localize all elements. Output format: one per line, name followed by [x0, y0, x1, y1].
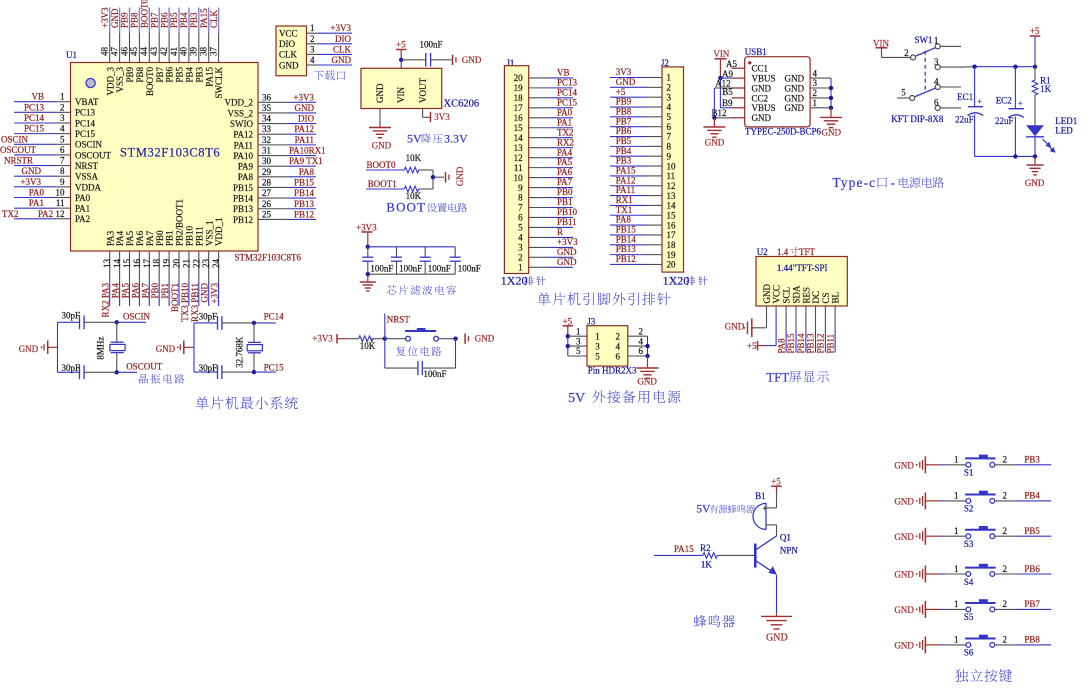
svg-text:PB1: PB1	[160, 283, 170, 299]
ground (cap)	[452, 55, 454, 65]
U1 pin 8 VSSA	[14, 166, 99, 181]
power VIN (usb)	[713, 49, 729, 78]
J1 pin 4 net R	[518, 227, 573, 243]
J2 pin 6 net PB7	[610, 116, 672, 132]
U1 pin 5 OSCIN	[1, 134, 103, 149]
power +3V3 (reset)	[312, 334, 347, 344]
svg-text:GND: GND	[372, 140, 392, 150]
svg-text:10: 10	[56, 188, 66, 198]
U1 pin 33 PA12	[233, 124, 316, 139]
svg-text:6: 6	[518, 213, 523, 223]
svg-text:1K: 1K	[701, 560, 713, 570]
U1 pin 47 VSS_3	[109, 8, 125, 93]
svg-text:VBUS: VBUS	[752, 74, 776, 84]
label 1X20 paizhen (J1)	[501, 274, 546, 288]
svg-text:39: 39	[189, 47, 199, 57]
J3 left pin 1	[568, 326, 587, 336]
svg-text:PC15: PC15	[557, 97, 578, 107]
svg-text:STM32F103C8T6: STM32F103C8T6	[120, 146, 220, 160]
U1 pin 12 PA2	[2, 209, 90, 224]
svg-text:33: 33	[262, 124, 272, 134]
svg-text:CLK: CLK	[333, 44, 352, 54]
J1 pin 3 net +3V3	[518, 237, 578, 253]
wire J3 right bus	[647, 336, 649, 356]
svg-text:2: 2	[813, 88, 818, 98]
net label OSCOUT	[117, 361, 163, 372]
svg-text:17: 17	[142, 259, 152, 269]
ground (power rail)	[1025, 156, 1045, 188]
svg-text:1: 1	[310, 23, 315, 33]
svg-text:PB14: PB14	[294, 188, 315, 198]
svg-text:DIO: DIO	[298, 114, 314, 124]
svg-text:PA11: PA11	[234, 140, 253, 150]
svg-text:20: 20	[514, 73, 524, 83]
svg-text:GND: GND	[557, 257, 577, 267]
svg-text:PB15: PB15	[233, 183, 254, 193]
svg-text:PA2: PA2	[75, 214, 90, 224]
junction	[366, 245, 370, 249]
svg-text:10: 10	[514, 173, 524, 183]
U1 pin 3 PC14	[14, 113, 96, 128]
svg-text:26: 26	[262, 199, 272, 209]
svg-text:CS: CS	[821, 292, 831, 303]
svg-text:KFT DIP-8X8: KFT DIP-8X8	[891, 114, 944, 124]
caption 5V waijie beiyong dianyuan	[568, 390, 680, 406]
svg-text:PB4: PB4	[185, 67, 195, 83]
wire emitter	[776, 575, 778, 614]
svg-text:32: 32	[262, 135, 271, 145]
wire collector	[776, 525, 778, 536]
svg-text:PA6: PA6	[135, 230, 145, 246]
svg-text:RX1: RX1	[616, 195, 633, 205]
junction	[115, 370, 119, 374]
svg-text:B5: B5	[722, 87, 733, 97]
svg-text:PB14: PB14	[616, 234, 637, 244]
svg-text:GND: GND	[616, 77, 636, 87]
svg-text:BL: BL	[831, 292, 841, 304]
J2 pin 4 net PB9	[610, 97, 672, 113]
svg-text:PB6: PB6	[1024, 564, 1040, 574]
push button S1	[940, 455, 996, 478]
svg-text:GND: GND	[375, 83, 385, 103]
svg-text:23: 23	[201, 259, 211, 269]
download pin 3 CLK	[307, 44, 353, 54]
ground (S1)	[894, 456, 939, 473]
svg-text:11: 11	[514, 163, 523, 173]
svg-text:100nF: 100nF	[399, 263, 422, 273]
svg-text:S4: S4	[964, 577, 974, 587]
J1 pin 17 net PC15	[514, 97, 578, 113]
capacitor 100nF #1	[362, 247, 393, 274]
svg-text:45: 45	[129, 47, 139, 57]
svg-text:GND: GND	[725, 322, 745, 332]
J2 pin 13 net PA11	[610, 185, 676, 201]
U1 pin 48 VDD_3	[100, 7, 116, 96]
svg-text:28: 28	[262, 177, 272, 187]
resistor 10K (reset)	[347, 336, 385, 351]
svg-text:GND: GND	[894, 532, 914, 542]
capacitor 100nF (reset)	[385, 339, 456, 379]
svg-text:PA15: PA15	[616, 166, 636, 176]
USB1 shell pin 4 GND	[785, 68, 832, 83]
junction	[431, 175, 435, 179]
U1 pin 32 PA11	[234, 135, 316, 150]
svg-text:30: 30	[262, 156, 272, 166]
USB1 shell pin 3 GND	[785, 78, 832, 93]
U1 pin 23 VSS_1	[200, 220, 215, 306]
caption fuwei dianlu	[396, 347, 441, 357]
svg-text:1.44"TFT-SPI: 1.44"TFT-SPI	[777, 263, 828, 273]
svg-text:16: 16	[514, 113, 524, 123]
svg-text:1: 1	[954, 455, 959, 465]
svg-text:XC6206: XC6206	[444, 99, 480, 110]
U1 pin 43 PB7	[149, 8, 165, 83]
push button S2	[940, 491, 996, 514]
ground (J3)	[637, 356, 659, 386]
capacitor EC2 22uF	[995, 67, 1024, 157]
U1 pin 38 PA15	[199, 8, 215, 87]
svg-text:PA4: PA4	[111, 283, 121, 299]
svg-text:PB5: PB5	[616, 136, 632, 146]
svg-text:GND: GND	[894, 570, 914, 580]
J1 pin 8 net PB0	[518, 187, 573, 203]
svg-text:6: 6	[667, 122, 672, 132]
svg-text:12: 12	[667, 181, 676, 191]
header J3 box	[587, 316, 628, 366]
junction	[399, 58, 403, 62]
net label PA15	[654, 544, 703, 555]
svg-text:2: 2	[518, 253, 523, 263]
J1 pin 13 net RX2	[514, 137, 574, 153]
svg-text:VIN: VIN	[396, 87, 406, 103]
J1 pin 1 net GND	[518, 257, 577, 273]
svg-text:100nF: 100nF	[370, 263, 393, 273]
svg-text:PB12: PB12	[233, 215, 253, 225]
svg-text:GND: GND	[894, 605, 914, 615]
svg-text:PC15: PC15	[75, 129, 96, 139]
svg-text:PB6: PB6	[165, 67, 175, 83]
svg-text:PB15: PB15	[616, 225, 637, 235]
svg-text:7: 7	[518, 203, 523, 213]
svg-text:PB7: PB7	[149, 12, 159, 28]
svg-text:PA10RX1: PA10RX1	[289, 146, 326, 156]
svg-text:2: 2	[616, 332, 621, 342]
svg-text:27: 27	[262, 188, 272, 198]
net label PC15	[254, 362, 284, 372]
ground (S4)	[894, 566, 939, 583]
USB1 shell pin 1 GND	[785, 98, 832, 113]
svg-text:PB4: PB4	[179, 12, 189, 28]
U1 pin 25 PB12	[233, 209, 316, 224]
svg-text:4: 4	[518, 233, 523, 243]
svg-text:PA4: PA4	[557, 147, 573, 157]
caption TFT ping xianshi	[766, 370, 829, 385]
U1 pin 28 PB15	[233, 177, 316, 192]
svg-text:22uF: 22uF	[995, 116, 1014, 126]
ground (S6)	[894, 636, 939, 653]
J2 pin 14 net RX1	[610, 195, 676, 211]
svg-text:GND: GND	[766, 632, 788, 643]
svg-text:GND: GND	[22, 166, 42, 176]
svg-text:Pin HDR2X3: Pin HDR2X3	[588, 366, 637, 376]
svg-text:PA11: PA11	[616, 185, 635, 195]
svg-text:VOUT: VOUT	[418, 78, 428, 103]
svg-text:20: 20	[667, 260, 677, 270]
svg-text:1K: 1K	[1040, 84, 1052, 94]
svg-text:1: 1	[595, 332, 600, 342]
svg-text:NPN: NPN	[780, 545, 799, 555]
svg-text:VIN: VIN	[713, 49, 729, 59]
svg-text:+5: +5	[1030, 26, 1040, 36]
svg-text:LED: LED	[1055, 126, 1073, 136]
ground (buzzer)	[761, 613, 792, 643]
push button S4	[940, 564, 996, 587]
junction	[645, 354, 649, 358]
svg-text:+5: +5	[771, 476, 781, 486]
power +5 (tft)	[747, 341, 763, 351]
svg-text:4: 4	[934, 77, 939, 87]
J2 pin 16 net PA8	[610, 215, 676, 231]
svg-text:SWIO: SWIO	[230, 119, 253, 129]
svg-text:17: 17	[514, 103, 524, 113]
svg-text:PB4: PB4	[616, 146, 632, 156]
U1 pin 9 VDDA	[14, 177, 101, 192]
svg-text:3: 3	[576, 336, 581, 346]
svg-text:19: 19	[162, 259, 172, 269]
svg-text:VSSA: VSSA	[75, 172, 99, 182]
caption duli anjian	[955, 669, 1012, 682]
resistor 10K (BOOT0)	[404, 153, 433, 173]
svg-text:PA7: PA7	[140, 283, 150, 299]
svg-text:10: 10	[667, 161, 677, 171]
svg-text:30pF: 30pF	[199, 311, 218, 321]
wire power rail	[961, 66, 975, 68]
svg-text:PB5: PB5	[169, 12, 179, 28]
svg-text:PA7: PA7	[557, 177, 573, 187]
svg-text:1: 1	[954, 491, 959, 501]
wire xtal2 left rail	[193, 323, 195, 372]
svg-text:7: 7	[667, 132, 672, 142]
ground (regulator)	[369, 128, 392, 151]
svg-text:1: 1	[518, 263, 523, 273]
svg-text:BOOT0: BOOT0	[367, 160, 396, 170]
USB1 pin A12 GND	[714, 83, 771, 93]
svg-text:PC13: PC13	[557, 77, 578, 87]
svg-text:PC14: PC14	[557, 87, 578, 97]
svg-text:DIO: DIO	[335, 34, 351, 44]
junction	[1013, 65, 1017, 69]
svg-text:VDD_3: VDD_3	[105, 67, 115, 96]
svg-text:VIN: VIN	[873, 38, 889, 48]
svg-text:PA1: PA1	[75, 204, 90, 214]
svg-text:PB2/BOOT1: PB2/BOOT1	[175, 199, 185, 246]
junction	[972, 65, 976, 69]
capacitor 100nF #2	[391, 247, 422, 274]
J1 pin 19 net PC13	[514, 77, 578, 93]
svg-text:GND: GND	[752, 83, 772, 93]
resistor R1 1K	[1032, 67, 1051, 126]
svg-text:EC2: EC2	[996, 96, 1012, 106]
wire power rail blue	[975, 66, 1035, 68]
USB1 pin B12 GND	[714, 113, 771, 123]
svg-text:VBUS: VBUS	[752, 103, 776, 113]
svg-text:PC14: PC14	[264, 311, 285, 321]
svg-text:6: 6	[934, 98, 939, 108]
svg-text:GND: GND	[705, 137, 725, 147]
junction	[366, 272, 370, 276]
net label PB8	[995, 635, 1052, 645]
svg-text:8: 8	[60, 166, 65, 176]
svg-text:15: 15	[122, 259, 132, 269]
mcu U1 body	[66, 50, 258, 251]
svg-text:GND: GND	[822, 128, 842, 138]
U1 pin 30 PA9	[238, 156, 323, 171]
svg-text:15: 15	[514, 123, 524, 133]
svg-text:PB9: PB9	[120, 12, 130, 28]
svg-text:BOOT0: BOOT0	[140, 0, 150, 28]
ground (usb left)	[703, 118, 725, 148]
J2 pin 11 net PA15	[610, 166, 675, 182]
svg-text:CC2: CC2	[752, 93, 769, 103]
wire bottom rail (power)	[975, 155, 1035, 157]
svg-text:34: 34	[262, 114, 272, 124]
svg-text:CLK: CLK	[279, 50, 298, 60]
svg-text:GND: GND	[19, 344, 39, 354]
svg-text:PA3: PA3	[105, 230, 115, 246]
svg-text:GND: GND	[762, 284, 772, 304]
caption fengmingqi	[694, 615, 735, 627]
svg-text:GND: GND	[279, 60, 299, 70]
regulator U? XC6206 body	[361, 68, 479, 109]
svg-text:3: 3	[310, 44, 315, 54]
svg-text:PA8: PA8	[776, 338, 786, 354]
svg-text:24: 24	[211, 259, 221, 269]
svg-text:13: 13	[514, 143, 524, 153]
U1 pin 6 OSCOUT	[0, 145, 112, 160]
svg-text:14: 14	[514, 133, 524, 143]
svg-text:11: 11	[56, 198, 65, 208]
svg-text:PB13: PB13	[233, 204, 254, 214]
capacitor 100nF #3	[420, 247, 451, 274]
svg-text:47: 47	[109, 47, 119, 57]
svg-text:PA6: PA6	[130, 283, 140, 299]
svg-text:GND: GND	[637, 376, 657, 386]
svg-text:PA9 TX1: PA9 TX1	[289, 156, 323, 166]
svg-text:PA5: PA5	[121, 283, 131, 299]
junction	[115, 320, 119, 324]
svg-text:PB8: PB8	[1024, 635, 1040, 645]
capacitor 100nF (input)	[401, 40, 451, 67]
push button S3	[940, 526, 996, 549]
net label PB3	[995, 455, 1052, 465]
junction	[252, 321, 256, 325]
U1 pin 11 PA1	[14, 198, 90, 213]
J3 right pin 6	[628, 346, 648, 356]
svg-text:5V: 5V	[696, 504, 711, 516]
junction	[566, 334, 570, 338]
caption jingzhen dianlu	[139, 374, 184, 384]
svg-text:PB13: PB13	[294, 199, 315, 209]
svg-text:5: 5	[518, 223, 523, 233]
svg-text:PB3: PB3	[1024, 455, 1040, 465]
svg-text:PA4: PA4	[115, 230, 125, 246]
USB1 shell pin 2 GND	[785, 88, 832, 103]
wire vbus bus	[719, 78, 721, 108]
svg-text:SCL: SCL	[782, 287, 792, 304]
svg-text:25: 25	[262, 209, 272, 219]
caption 5V youyuan fengmingqi	[696, 504, 755, 516]
junction	[1013, 154, 1017, 158]
net label PB6	[995, 564, 1052, 574]
svg-text:BOOT0: BOOT0	[145, 67, 155, 96]
J1 pin 7 net PB1	[518, 197, 573, 213]
svg-text:22uF: 22uF	[955, 115, 974, 125]
J2 pin 10 net PB3	[610, 156, 676, 172]
svg-text:11: 11	[667, 171, 676, 181]
net label PB4	[995, 491, 1052, 501]
push button S5	[940, 599, 996, 622]
svg-text:17: 17	[667, 230, 677, 240]
label 1X20 paizhen (J2)	[663, 274, 708, 288]
net label PB7	[995, 599, 1052, 609]
svg-text:1.4: 1.4	[777, 247, 789, 257]
svg-text:DIO: DIO	[279, 39, 295, 49]
svg-text:1: 1	[954, 635, 959, 645]
svg-text:GND: GND	[894, 497, 914, 507]
svg-text:PA12: PA12	[616, 175, 636, 185]
resistor R2 1K	[700, 543, 754, 570]
svg-text:1X20: 1X20	[501, 274, 528, 288]
J1 pin 6 net PB10	[518, 207, 577, 223]
svg-text:PB13: PB13	[806, 333, 816, 354]
U2 pin VCC	[763, 285, 782, 346]
svg-text:8MHz: 8MHz	[96, 337, 106, 360]
svg-text:4: 4	[639, 336, 644, 346]
svg-text:-: -	[891, 175, 896, 190]
svg-text:RES: RES	[801, 287, 811, 304]
svg-text:5: 5	[667, 112, 672, 122]
USB1 pin B9 VBUS	[720, 103, 775, 113]
svg-text:+3V3: +3V3	[330, 23, 351, 33]
junction	[645, 344, 649, 348]
svg-text:GND: GND	[455, 166, 465, 186]
svg-text:2: 2	[667, 83, 672, 93]
net label OSCIN	[117, 312, 151, 323]
svg-text:35: 35	[262, 103, 272, 113]
download pin 1 +3V3	[307, 23, 353, 33]
svg-text:VSS_3: VSS_3	[115, 67, 125, 93]
svg-text:PA15: PA15	[204, 67, 214, 87]
U2 pin SCL	[776, 287, 791, 354]
svg-text:S1: S1	[964, 468, 974, 478]
svg-text:BOOT: BOOT	[386, 200, 426, 215]
ground (tft)	[725, 318, 756, 337]
power VIN (sw)	[873, 38, 889, 57]
svg-text:18: 18	[514, 93, 524, 103]
J1 pin 12 net PA4	[514, 147, 573, 163]
svg-text:PB11: PB11	[557, 217, 577, 227]
J2 pin 5 net PB8	[610, 106, 672, 122]
svg-text:TFT: TFT	[766, 370, 789, 385]
svg-text:13: 13	[667, 191, 677, 201]
U1 pin 36 VDD_2	[225, 92, 317, 107]
svg-text:3: 3	[667, 92, 672, 102]
junction	[383, 337, 387, 341]
J3 left pin 5	[568, 346, 587, 356]
junction	[829, 86, 833, 90]
ground (S5)	[894, 601, 939, 618]
svg-text:1: 1	[576, 326, 581, 336]
